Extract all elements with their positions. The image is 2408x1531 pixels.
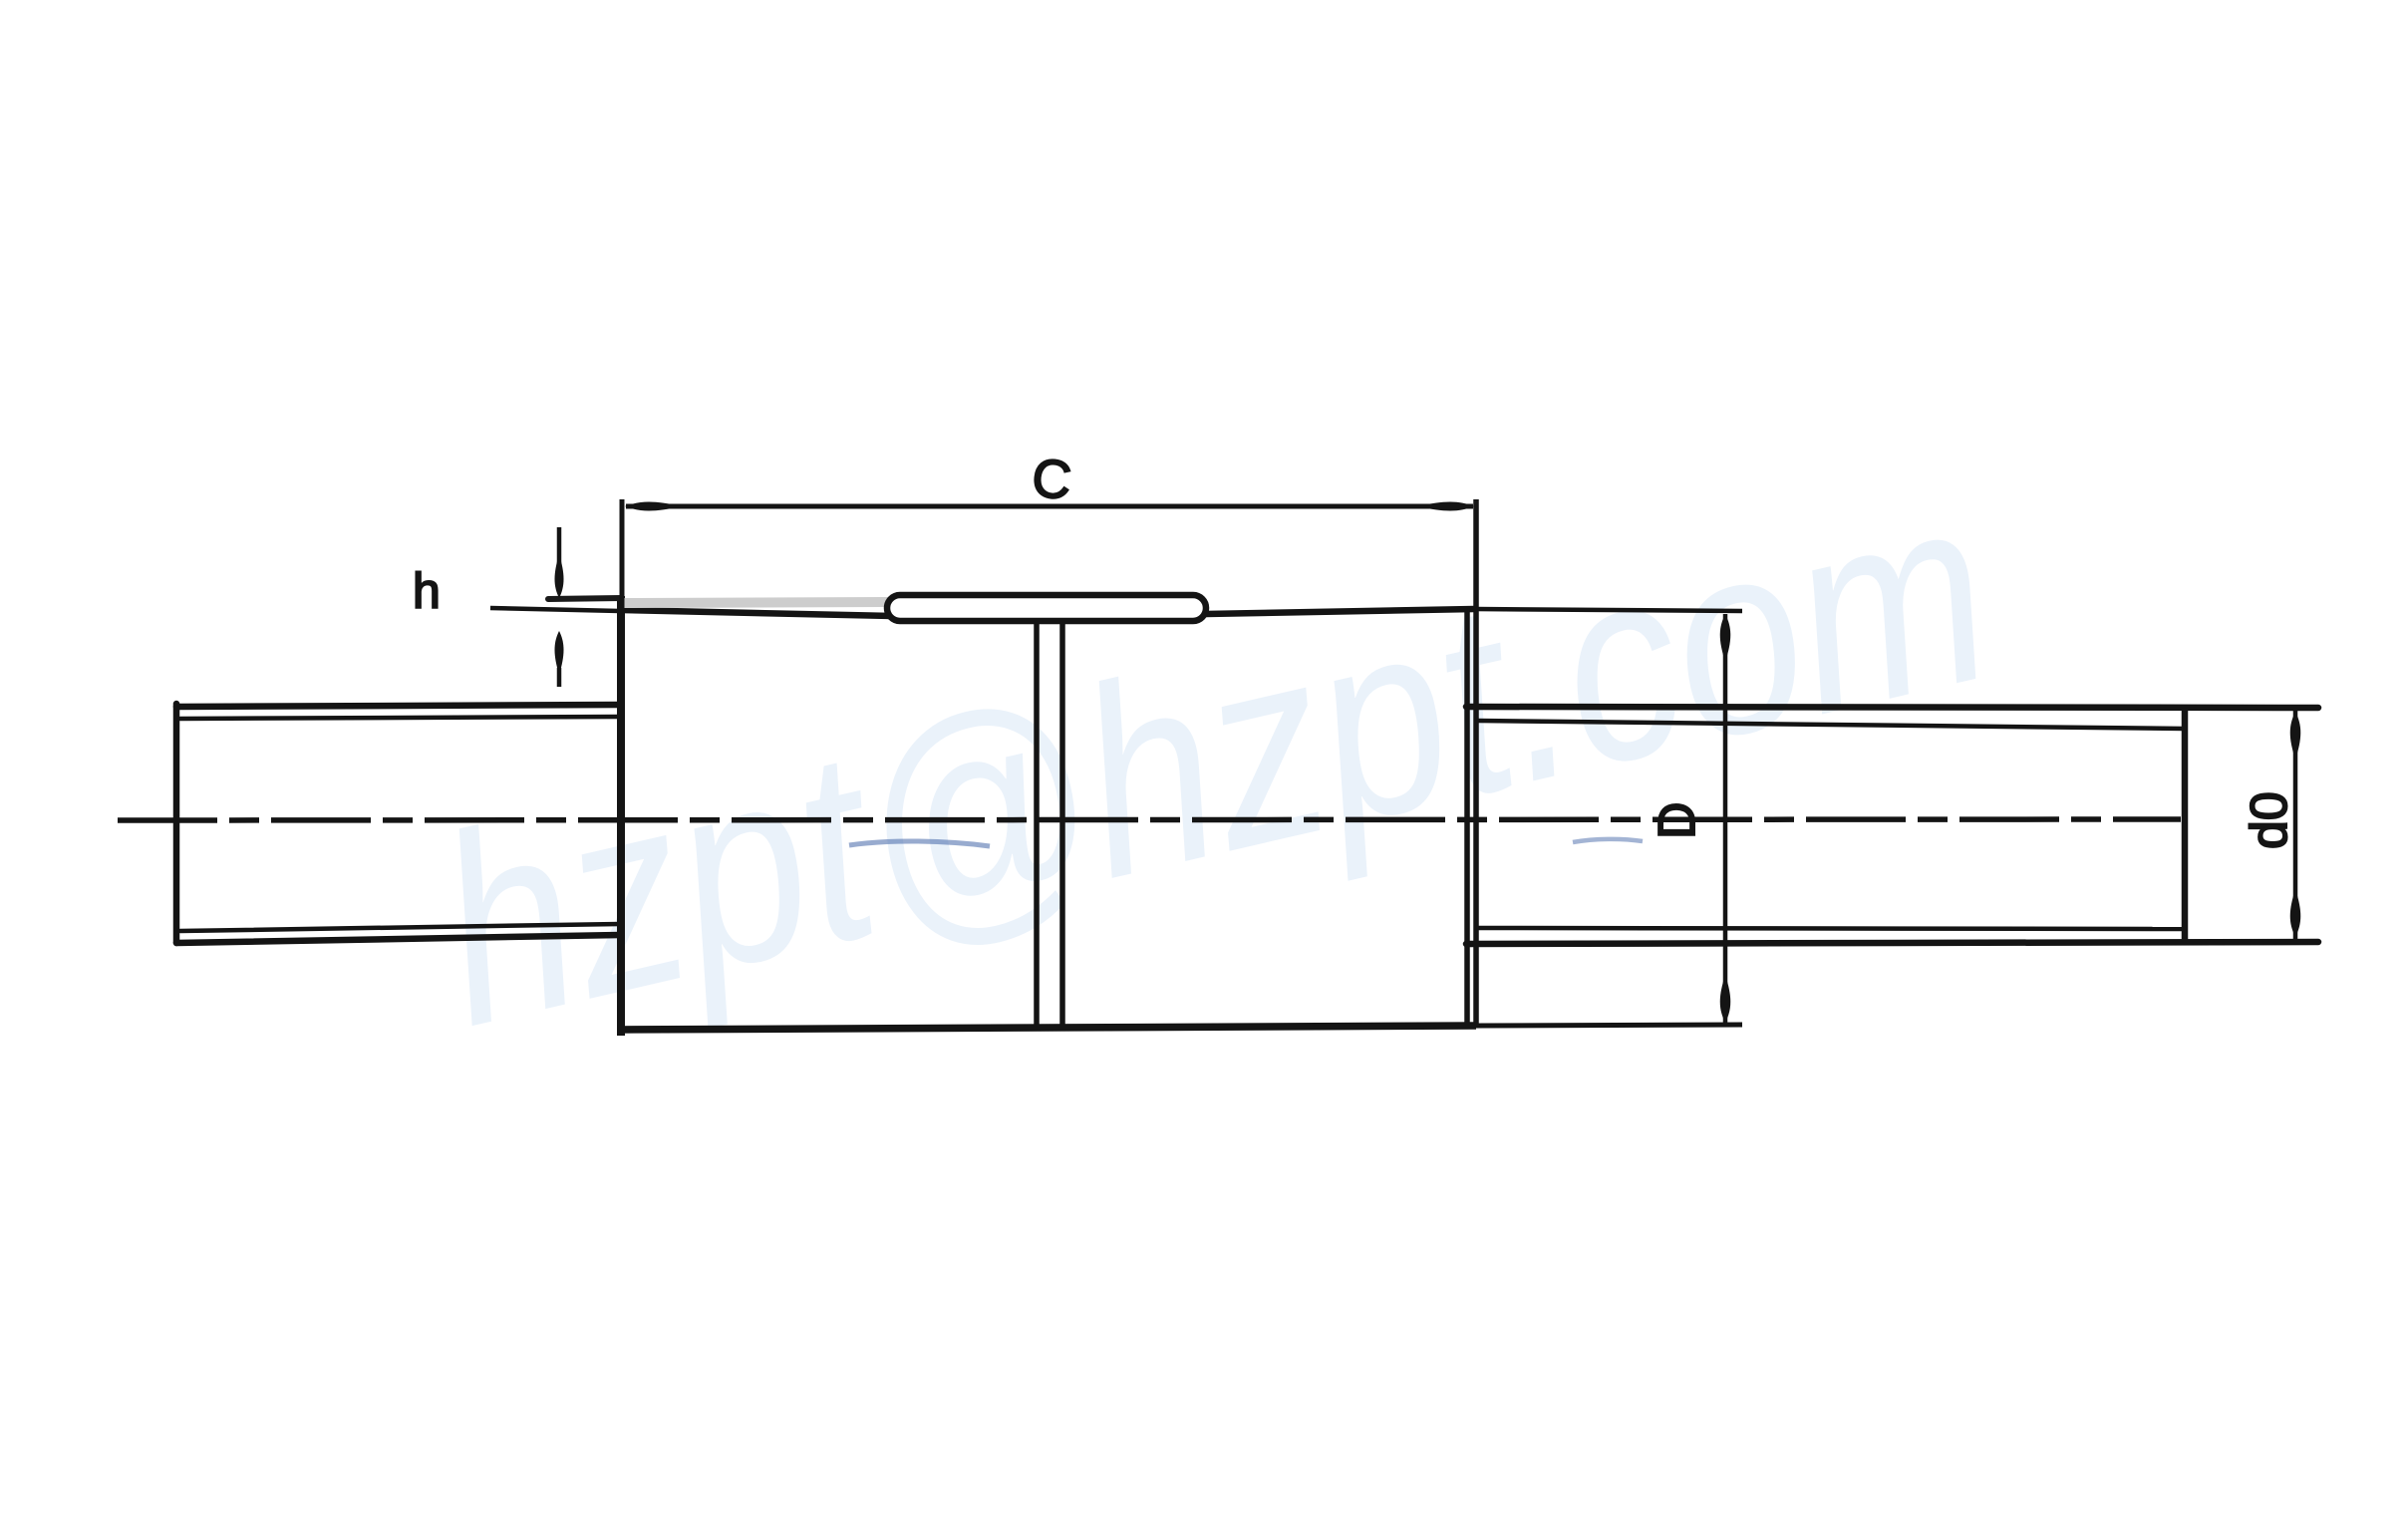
dimension C right arrow [1417, 502, 1474, 511]
dimension h upper arrow [557, 527, 562, 564]
svg-text:C: C [1030, 448, 1074, 511]
dimension D line [1723, 614, 1728, 1023]
dimension D top arrow [1720, 614, 1731, 662]
dimension C line [626, 504, 1473, 509]
svg-text:D: D [1649, 801, 1706, 839]
key top reference line dark segment [548, 598, 622, 599]
dimension d0 line [2293, 710, 2298, 939]
watermark smudge on centerline right [1573, 839, 1643, 842]
dimension C left extension line [620, 499, 625, 610]
left shaft top inner line [180, 717, 620, 719]
key top reference line gray band [622, 602, 888, 603]
watermark [414, 435, 2015, 1082]
watermark smudge on centerline left [849, 841, 990, 846]
hub body right edge inner line [1464, 610, 1470, 1027]
hub body top line left of key [621, 610, 890, 616]
left shaft left edge [173, 704, 180, 943]
dimension D top extension line [1476, 609, 1742, 611]
hub body left edge [617, 596, 625, 1036]
dimension D bottom extension line [1476, 1025, 1742, 1026]
svg-text:hzpt@hzpt.com: hzpt@hzpt.com [414, 435, 2015, 1082]
key (boss) rounded outline [887, 595, 1206, 621]
svg-text:h: h [413, 563, 441, 619]
left shaft bottom inner line [180, 924, 620, 931]
centerline [118, 819, 2181, 820]
dimension C left arrow [625, 502, 682, 511]
left shaft bottom outer line [176, 935, 620, 943]
hub body top line right of key [1206, 609, 1474, 614]
dimension h lower extension line [490, 608, 620, 611]
key stem right line [1059, 623, 1065, 1027]
right shaft bottom inner line [1478, 928, 2185, 929]
key stem left line [1034, 623, 1040, 1027]
svg-text:d0: d0 [2241, 791, 2298, 849]
dimension h lower arrow [555, 631, 564, 675]
right shaft top inner line [1478, 721, 2185, 729]
left shaft top outer line [176, 705, 620, 707]
right shaft end cap line [2182, 706, 2189, 943]
dimension D bottom arrow [1720, 975, 1731, 1023]
hub body right edge outer line and C extension [1473, 499, 1479, 1028]
right shaft bottom outer line [1466, 942, 2318, 944]
hub body bottom edge [618, 1026, 1476, 1030]
dimension d0 top arrow [2290, 712, 2301, 760]
right shaft top outer line [1466, 707, 2318, 708]
dimension d0 bottom arrow [2290, 889, 2301, 937]
